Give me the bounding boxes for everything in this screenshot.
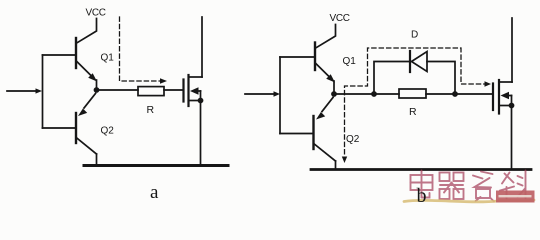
- wire: input rail vertical (a): [42, 55, 44, 128]
- node: source junction dot (a): [198, 98, 204, 104]
- node: driver output junction (b): [331, 91, 337, 97]
- node: source junction dot (b): [509, 103, 515, 109]
- transistor Q2 PNP (b): [314, 98, 336, 162]
- wire: Q2 base (b): [280, 133, 313, 135]
- wire: diode branch left riser (b): [374, 62, 409, 95]
- svg-text:b: b: [417, 185, 427, 207]
- wire: MOSFET source down to ground (a): [200, 101, 202, 166]
- svg-text:Q1: Q1: [343, 56, 357, 67]
- node: driver output junction (a): [94, 87, 100, 93]
- wire: Q2 base (a): [43, 127, 76, 129]
- wire: Q1 base (a): [43, 54, 76, 56]
- wire: Q2 collector to ground (a): [96, 154, 98, 166]
- wire: input rail vertical (b): [279, 57, 281, 134]
- input signal arrow (a): [7, 88, 42, 93]
- watermark gold underline: [404, 200, 534, 202]
- transistor Q1 (b): [315, 43, 335, 83]
- watermark: red chinese characters: [404, 171, 535, 203]
- watermark char 4: [500, 171, 526, 199]
- watermark char 2: [440, 173, 464, 200]
- wire: MOSFET drain up (b): [511, 18, 513, 82]
- dashed turn-off current path (b): [342, 48, 491, 163]
- wire: node to resistor (a): [99, 89, 138, 91]
- transistor Q2 PNP (a): [76, 94, 97, 155]
- watermark red banner: [496, 191, 535, 203]
- wire: Q2 collector to ground (b): [335, 161, 337, 170]
- svg-text:Q2: Q2: [101, 126, 115, 137]
- MOSFET VT (b): [493, 80, 512, 114]
- ground bus (a): [84, 164, 228, 167]
- svg-text:a: a: [150, 182, 159, 203]
- MOSFET VT (a): [184, 75, 203, 106]
- svg-text:R: R: [147, 104, 155, 116]
- dashed turn-on current path with arrow (a): [120, 17, 168, 84]
- diode D (b): [410, 51, 427, 72]
- resistor R (a): [138, 87, 164, 96]
- wire: node to resistor (b): [337, 93, 399, 95]
- svg-text:Q2: Q2: [346, 134, 360, 145]
- wire: Q1 base (b): [280, 56, 314, 58]
- svg-text:VCC: VCC: [86, 8, 106, 19]
- watermark char 3: [473, 172, 494, 202]
- wire: resistor to MOSFET gate (b): [426, 93, 492, 95]
- watermark char 1: [411, 171, 433, 198]
- transistor Q1 (a): [76, 38, 97, 82]
- wire: VCC lead down to Q1 collector (a): [78, 19, 97, 43]
- svg-text:VCC: VCC: [330, 13, 350, 24]
- wire: MOSFET drain up (a): [201, 17, 203, 77]
- input signal arrow (b): [245, 91, 280, 96]
- wire: VCC lead down to Q1 collector (b): [317, 25, 336, 48]
- svg-text:R: R: [409, 106, 417, 118]
- wire: resistor to MOSFET gate (a): [164, 89, 183, 91]
- node: diode branch left junction (b): [371, 91, 377, 97]
- node: diode branch right junction (b): [452, 91, 458, 97]
- wire: Q1 emitter to node (a): [96, 80, 98, 90]
- svg-text:D: D: [411, 30, 418, 41]
- wire: Q1 emitter to node (b): [333, 81, 335, 94]
- wire: diode branch right riser (b): [427, 62, 455, 95]
- resistor R (b): [399, 89, 426, 98]
- svg-text:Q1: Q1: [101, 53, 115, 64]
- ground bus (b): [311, 168, 531, 171]
- wire: MOSFET source down to ground (b): [511, 106, 513, 170]
